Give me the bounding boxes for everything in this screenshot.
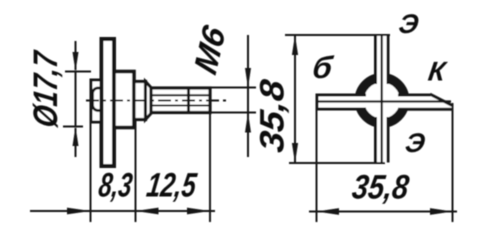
taper cone <box>146 82 152 120</box>
svg-text:35,8: 35,8 <box>350 169 411 207</box>
vertical dim arrow down <box>292 143 298 163</box>
axis centerline of left view <box>86 100 229 102</box>
collector lead right (fill) <box>398 94 453 110</box>
diameter 17,7 dimension line <box>75 72 77 128</box>
dia 17,7 arrow down (outside above) <box>75 41 77 70</box>
thread line lower <box>151 105 209 107</box>
svg-text:Э: Э <box>403 127 427 158</box>
emitter lead top (fill) <box>375 35 389 84</box>
thread end line <box>187 89 190 112</box>
dia 17,7 arrow up (outside below) <box>75 128 77 157</box>
extension tick top for dia 17,7 <box>65 71 91 73</box>
extension line for 8,3 left (boss face) <box>90 122 92 222</box>
extension line shared 8,3 / 12,5 (hex face) <box>135 121 137 222</box>
extension line h-dim right (collector lead tip) <box>452 103 454 222</box>
hex body <box>114 72 134 128</box>
M6 dimension line <box>247 35 249 157</box>
svg-text:К: К <box>426 56 449 87</box>
rear boss (header base) <box>91 80 104 122</box>
bottom extension line (lead tip) <box>289 162 385 164</box>
collector lead chamfer <box>430 94 453 106</box>
svg-text:35,8: 35,8 <box>254 77 292 154</box>
emitter lead top edges <box>374 35 377 84</box>
extension line h-dim left (base lead tip) <box>316 110 318 222</box>
arrow at shared extension (pointing left) <box>136 208 159 215</box>
horizontal centerline right view <box>317 100 451 102</box>
base lead end closure <box>316 94 319 111</box>
base lead left (fill) <box>316 94 366 110</box>
svg-text:Э: Э <box>397 8 421 39</box>
svg-text:б: б <box>310 50 335 85</box>
collector lead top edge <box>398 94 431 97</box>
svg-text:Ø17,7: Ø17,7 <box>27 48 65 130</box>
lead seal ring on boss <box>93 88 105 111</box>
emitter lead bottom (fill) <box>375 117 389 163</box>
horizontal 35,8 dimension line <box>309 211 457 213</box>
svg-text:8,3: 8,3 <box>96 167 134 205</box>
M6 extension tick top <box>211 87 256 89</box>
M6 extension tick bottom <box>211 112 256 114</box>
h-dim arrow left <box>317 208 340 215</box>
base lead edges <box>316 94 366 97</box>
emitter lead bottom edges <box>374 117 377 163</box>
vertical 35,8 dimension line <box>294 35 296 163</box>
vertical centerline right view <box>381 35 383 163</box>
thread line upper <box>151 94 209 96</box>
arrow at 8,3 left (outside pointing right) <box>67 208 91 215</box>
bottom dimension line left view <box>30 210 215 212</box>
cylinder section <box>134 82 146 120</box>
h-dim arrow right <box>430 208 453 215</box>
collector lead bottom edge <box>398 108 453 111</box>
arrow at stud end (pointing right) <box>187 208 210 215</box>
M6 dimension arrow up <box>245 113 251 133</box>
vertical dim arrow up <box>292 35 298 55</box>
extension line for 12,5 at stud end <box>209 113 211 222</box>
body ring <box>359 78 404 123</box>
extension tick bottom for dia 17,7 <box>63 126 83 128</box>
threaded stud M6 <box>151 88 210 113</box>
M6 dimension arrow down <box>245 68 251 88</box>
svg-text:М6: М6 <box>188 21 233 80</box>
svg-text:12,5: 12,5 <box>144 167 199 205</box>
top extension line (lead tip) <box>285 34 390 36</box>
flange tab (edge-on) <box>102 39 115 166</box>
